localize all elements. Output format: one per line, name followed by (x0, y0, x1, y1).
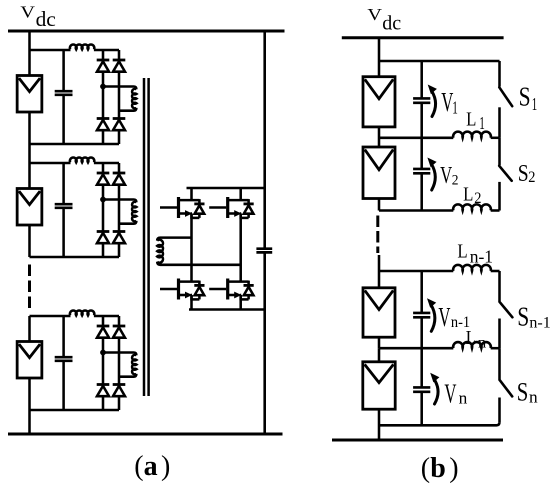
svg-text:n: n (459, 389, 468, 408)
svg-text:2: 2 (452, 172, 459, 189)
svg-text:(: ( (421, 453, 430, 484)
svg-text:L: L (466, 108, 476, 130)
svg-text:1: 1 (452, 99, 458, 118)
svg-text:L: L (463, 183, 473, 205)
svg-text:1: 1 (532, 96, 537, 115)
svg-text:S: S (517, 302, 529, 332)
svg-text:n: n (529, 388, 538, 407)
svg-text:(: ( (134, 451, 143, 482)
svg-text:S: S (517, 379, 529, 408)
svg-text:a: a (144, 451, 158, 482)
svg-text:V: V (20, 3, 35, 21)
svg-text:V: V (440, 161, 452, 189)
svg-text:): ) (161, 451, 170, 482)
svg-text:S: S (519, 83, 531, 113)
svg-text:2: 2 (528, 168, 535, 186)
svg-text:S: S (518, 159, 529, 187)
svg-text:n-1: n-1 (451, 313, 470, 331)
svg-text:V: V (367, 6, 382, 24)
svg-text:dc: dc (36, 7, 56, 31)
svg-text:): ) (449, 453, 458, 484)
svg-text:2: 2 (474, 189, 481, 207)
svg-text:n: n (478, 333, 486, 352)
svg-text:V: V (441, 87, 453, 117)
svg-text:V: V (444, 379, 456, 409)
svg-text:1: 1 (479, 115, 485, 134)
svg-text:n-1: n-1 (529, 314, 550, 331)
svg-text:dc: dc (382, 12, 401, 34)
svg-text:n-1: n-1 (470, 247, 493, 267)
svg-text:V: V (438, 302, 450, 332)
svg-text:L: L (457, 240, 467, 262)
svg-text:b: b (430, 453, 446, 484)
